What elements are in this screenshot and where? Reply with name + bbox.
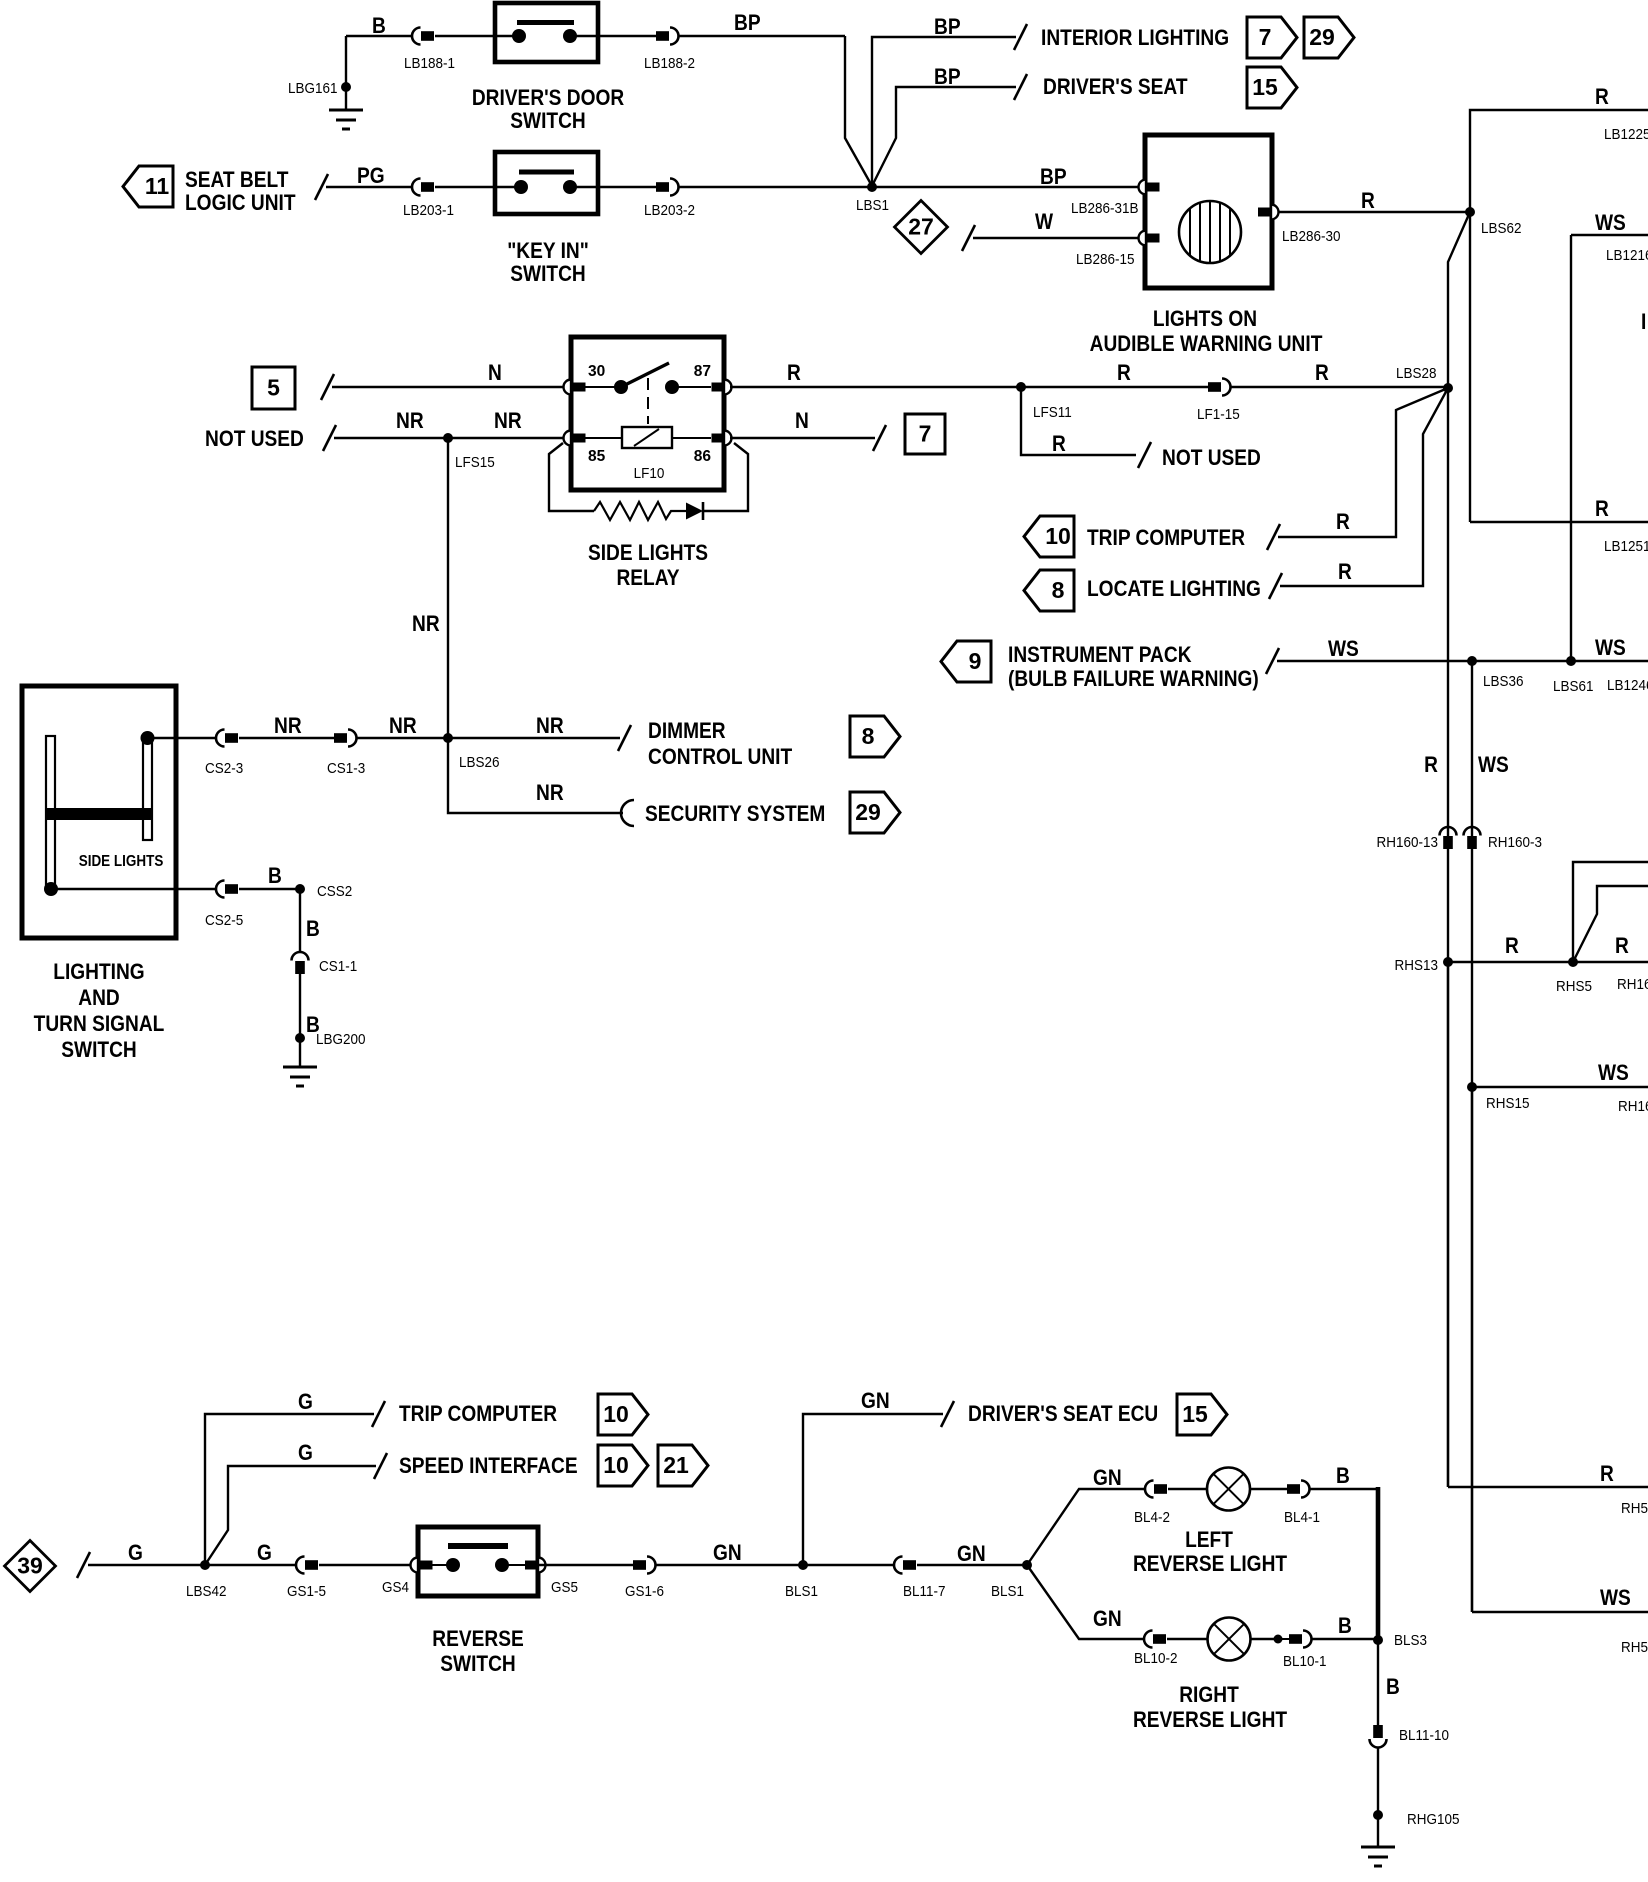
svg-text:RH16: RH16 xyxy=(1617,976,1648,993)
wire R from LB286-30 to LBS62 xyxy=(1279,211,1470,213)
node LBS62 xyxy=(1465,207,1475,217)
svg-text:29: 29 xyxy=(1309,24,1335,50)
svg-text:B: B xyxy=(306,917,320,942)
wire bulb to BL10-1 xyxy=(1250,1638,1278,1640)
svg-text:LFS11: LFS11 xyxy=(1033,404,1072,421)
switch left contact strip xyxy=(46,736,55,891)
wire BLS1 to BL11-7 xyxy=(803,1564,894,1566)
pointer 15 xyxy=(1247,67,1297,108)
svg-text:TURN SIGNAL: TURN SIGNAL xyxy=(34,1012,165,1037)
svg-text:LIGHTS ON: LIGHTS ON xyxy=(1153,307,1257,332)
svg-text:BL11-10: BL11-10 xyxy=(1399,1727,1449,1744)
wire CS1-3 to LBS26 xyxy=(356,737,448,739)
svg-text:8: 8 xyxy=(1052,577,1065,603)
svg-text:BP: BP xyxy=(734,11,761,36)
svg-text:(BULB FAILURE WARNING): (BULB FAILURE WARNING) xyxy=(1008,667,1259,692)
svg-text:LB188-1: LB188-1 xyxy=(404,55,455,72)
svg-text:GN: GN xyxy=(861,1389,890,1414)
svg-text:15: 15 xyxy=(1252,74,1278,100)
svg-text:7: 7 xyxy=(1259,24,1272,50)
svg-text:85: 85 xyxy=(588,448,606,465)
svg-text:LB286-31B: LB286-31B xyxy=(1071,200,1138,217)
relay pin 86 xyxy=(724,431,732,446)
wire from switch to LB203-2 xyxy=(598,186,656,188)
lights-on audible warning unit box xyxy=(1145,135,1272,288)
diamond 39 xyxy=(5,1541,56,1592)
svg-text:RELAY: RELAY xyxy=(616,566,679,591)
wire WS corner to right edge xyxy=(1472,1611,1648,1614)
wire WS trunk RHS15 down to corner xyxy=(1471,1087,1474,1612)
resistor xyxy=(594,502,686,520)
svg-text:LB1216: LB1216 xyxy=(1606,247,1648,264)
svg-text:WS: WS xyxy=(1598,1061,1629,1086)
svg-text:BP: BP xyxy=(934,65,961,90)
svg-text:REVERSE LIGHT: REVERSE LIGHT xyxy=(1133,1708,1288,1733)
key-in switch blade xyxy=(519,170,574,175)
svg-text:LBS62: LBS62 xyxy=(1481,220,1522,237)
pointer 10 speed xyxy=(598,1445,648,1486)
node LFS11 xyxy=(1016,382,1026,392)
svg-text:RHS5: RHS5 xyxy=(1556,978,1592,995)
wire N relay 86 to box 7 xyxy=(730,437,875,439)
connector CS2-5 xyxy=(216,881,225,898)
lighting and turn signal switch box xyxy=(22,686,176,938)
ground RHG105 xyxy=(1373,1810,1383,1820)
connector GS1-6 xyxy=(633,1560,646,1570)
svg-text:LF1-15: LF1-15 xyxy=(1197,406,1240,423)
switch contact dot lower xyxy=(44,882,58,896)
slash W wire xyxy=(962,225,975,251)
connector BL4-2 xyxy=(1145,1481,1154,1498)
wire B to BLS3 xyxy=(1311,1638,1378,1640)
svg-text:BL10-1: BL10-1 xyxy=(1283,1653,1327,1670)
connector CS1-1 xyxy=(292,952,309,961)
pointer 29 xyxy=(1304,17,1354,58)
svg-text:R: R xyxy=(1615,934,1629,959)
connector LB203-1 xyxy=(412,179,421,196)
connector BL10-1 xyxy=(1274,1635,1283,1644)
wire NR to dimmer control unit xyxy=(448,737,620,739)
pointer 29 security xyxy=(850,792,900,833)
svg-text:B: B xyxy=(1386,1675,1400,1700)
wire WS trunk LBS36 down to RHS15 xyxy=(1471,661,1473,1087)
wire WS trunk upper right xyxy=(1571,234,1648,236)
svg-text:SECURITY SYSTEM: SECURITY SYSTEM xyxy=(645,802,825,827)
connector BL4-1 xyxy=(1287,1484,1300,1494)
svg-text:SWITCH: SWITCH xyxy=(510,109,585,134)
svg-text:NR: NR xyxy=(274,714,302,739)
wire G to trip computer xyxy=(205,1414,374,1565)
connector LF1-15 xyxy=(1208,382,1221,392)
node LFS15 xyxy=(443,433,453,443)
wire bend down to LBS1 xyxy=(845,36,872,186)
svg-text:27: 27 xyxy=(908,214,934,240)
node LBS42 xyxy=(200,1560,210,1570)
square box 7 xyxy=(905,414,945,454)
node RHS5 xyxy=(1568,957,1578,967)
svg-text:WS: WS xyxy=(1595,211,1626,236)
svg-text:REVERSE LIGHT: REVERSE LIGHT xyxy=(1133,1552,1288,1577)
wire R relay 87 to LFS11 xyxy=(730,386,1021,388)
svg-text:NR: NR xyxy=(389,714,417,739)
svg-text:CS1-1: CS1-1 xyxy=(319,958,357,975)
relay blade xyxy=(621,363,669,387)
connector CS1-3 xyxy=(334,733,347,743)
svg-text:AND: AND xyxy=(78,986,120,1011)
svg-text:B: B xyxy=(1338,1614,1352,1639)
svg-text:GN: GN xyxy=(1093,1607,1122,1632)
pointer 11 SEAT BELT LOGIC UNIT xyxy=(123,166,173,207)
svg-text:NR: NR xyxy=(494,409,522,434)
connector CS2-3 xyxy=(216,730,225,747)
svg-text:WS: WS xyxy=(1328,637,1359,662)
relay pin 30 xyxy=(564,380,571,395)
wire PG to LB203-1 xyxy=(326,186,412,188)
wire BLS1 to left reverse light xyxy=(1027,1489,1145,1565)
svg-text:AUDIBLE WARNING UNIT: AUDIBLE WARNING UNIT xyxy=(1090,332,1323,357)
svg-text:BLS1: BLS1 xyxy=(991,1583,1024,1600)
wire B to BLS3 corner xyxy=(1309,1488,1379,1491)
svg-text:5: 5 xyxy=(267,375,280,401)
svg-text:87: 87 xyxy=(694,363,711,380)
svg-text:30: 30 xyxy=(588,363,605,380)
svg-text:LOGIC UNIT: LOGIC UNIT xyxy=(185,191,296,216)
svg-text:R: R xyxy=(1424,753,1438,778)
svg-text:WS: WS xyxy=(1478,753,1509,778)
wire B BLS3 down to BL11-10 xyxy=(1377,1640,1379,1725)
driver's door switch contacts xyxy=(495,35,519,37)
reverse switch blade xyxy=(448,1543,508,1549)
svg-text:RIGHT: RIGHT xyxy=(1179,1683,1239,1708)
wire W to LB286-15 xyxy=(973,237,1140,239)
svg-text:LOCATE LIGHTING: LOCATE LIGHTING xyxy=(1087,577,1261,602)
svg-text:R: R xyxy=(1600,1462,1614,1487)
svg-text:LBS42: LBS42 xyxy=(186,1583,227,1600)
svg-text:B: B xyxy=(372,14,386,39)
slash N wire xyxy=(321,374,334,400)
node RHS15 xyxy=(1467,1082,1477,1092)
svg-text:RH160-3: RH160-3 xyxy=(1488,834,1542,851)
svg-text:SWITCH: SWITCH xyxy=(440,1652,515,1677)
svg-text:R: R xyxy=(1117,361,1131,386)
connector BL11-7 xyxy=(894,1557,903,1574)
svg-text:B: B xyxy=(1336,1464,1350,1489)
svg-text:LF10: LF10 xyxy=(634,465,665,482)
wire GN to BLS1 xyxy=(655,1564,803,1566)
svg-text:SIDE LIGHTS: SIDE LIGHTS xyxy=(79,853,164,870)
diode xyxy=(686,503,703,520)
slash N end xyxy=(873,425,886,451)
wire CS2-5 to CSS2 xyxy=(239,888,300,890)
svg-text:GS5: GS5 xyxy=(551,1579,578,1596)
wire BP LBS1 to LB286-31B xyxy=(872,186,1140,188)
svg-text:RH58: RH58 xyxy=(1621,1500,1648,1517)
svg-text:N: N xyxy=(795,409,809,434)
pointer 10 trip computer xyxy=(1024,516,1074,557)
svg-text:LEFT: LEFT xyxy=(1185,1528,1233,1553)
wire R to trip computer xyxy=(1278,388,1448,537)
svg-text:R: R xyxy=(1336,510,1350,535)
wire NR to security system xyxy=(448,738,623,813)
slash NR wire xyxy=(323,425,336,451)
slash interior lighting xyxy=(1014,24,1027,50)
slash speed xyxy=(374,1453,387,1479)
svg-text:NR: NR xyxy=(536,781,564,806)
svg-text:LBG161: LBG161 xyxy=(288,80,338,97)
pointer 9 instrument pack xyxy=(941,641,991,682)
svg-text:DRIVER'S DOOR: DRIVER'S DOOR xyxy=(472,86,624,111)
svg-text:BP: BP xyxy=(934,15,961,40)
svg-text:LB188-2: LB188-2 xyxy=(644,55,695,72)
wire WS vertical from corner to LBS61 xyxy=(1570,235,1572,661)
slash trip xyxy=(372,1401,385,1427)
wire from switch to LB188-2 xyxy=(598,35,656,37)
svg-text:15: 15 xyxy=(1182,1401,1208,1427)
wire R corner to right edge xyxy=(1448,1486,1648,1489)
wire NR vertical LFS15 to LBS26 xyxy=(447,438,449,738)
connector RH160-3 xyxy=(1464,827,1481,836)
wire R trunk LBS28 down to RHS13 xyxy=(1447,388,1449,962)
switch contact dot upper xyxy=(141,731,155,745)
wire into key-in switch xyxy=(435,186,495,188)
wire WS RHS15 to right edge xyxy=(1472,1086,1648,1088)
node BLS1 b xyxy=(1022,1560,1032,1570)
svg-text:DIMMER: DIMMER xyxy=(648,719,726,744)
driver's door switch blade xyxy=(517,20,574,25)
svg-text:7: 7 xyxy=(919,421,932,447)
svg-text:BL11-7: BL11-7 xyxy=(903,1583,946,1600)
wire BL11-7 to BLS1 b xyxy=(917,1564,1027,1566)
svg-text:NR: NR xyxy=(396,409,424,434)
svg-text:86: 86 xyxy=(694,448,712,465)
wire G to LBS42 xyxy=(88,1564,205,1566)
wire R to locate lighting xyxy=(1280,388,1448,586)
pointer 10 trip bottom xyxy=(598,1394,648,1435)
svg-text:GS1-6: GS1-6 xyxy=(625,1583,664,1600)
svg-text:R: R xyxy=(1595,85,1609,110)
svg-text:11: 11 xyxy=(145,173,170,199)
connector LB188-1 xyxy=(412,28,421,45)
svg-text:TRIP COMPUTER: TRIP COMPUTER xyxy=(1087,526,1245,551)
svg-text:SWITCH: SWITCH xyxy=(61,1038,136,1063)
key-in switch box xyxy=(495,152,598,214)
relay pin 87 xyxy=(724,380,732,395)
wire BP branch to interior lighting xyxy=(872,37,1016,186)
svg-text:W: W xyxy=(1035,210,1054,235)
svg-text:LBS36: LBS36 xyxy=(1483,673,1524,690)
svg-text:RH16: RH16 xyxy=(1618,1098,1648,1115)
pointer 21 speed xyxy=(658,1445,708,1486)
wire R not-used branch xyxy=(1021,387,1136,455)
open connector arc security xyxy=(621,800,634,826)
svg-text:10: 10 xyxy=(603,1452,629,1478)
wire G to speed interface xyxy=(205,1466,376,1565)
relay box LF10 xyxy=(571,337,724,490)
switch crossbar xyxy=(46,808,153,820)
speaker symbol xyxy=(1179,201,1241,263)
svg-text:BL4-1: BL4-1 xyxy=(1284,1509,1320,1526)
svg-text:R: R xyxy=(1052,432,1066,457)
node LBS1 xyxy=(867,182,877,192)
svg-text:I: I xyxy=(1641,310,1646,335)
svg-text:BLS3: BLS3 xyxy=(1394,1632,1427,1649)
svg-text:LB1225: LB1225 xyxy=(1604,126,1648,143)
svg-text:LB286-30: LB286-30 xyxy=(1282,228,1341,245)
relay suppression loop right xyxy=(703,443,748,511)
svg-text:39: 39 xyxy=(17,1553,43,1579)
slash at seat belt wire xyxy=(315,174,328,200)
wire into driver's door switch xyxy=(435,35,495,37)
slash driver's seat xyxy=(1014,74,1027,100)
reverse switch contacts xyxy=(432,1564,453,1566)
node RHS13 xyxy=(1443,957,1453,967)
svg-text:"KEY IN": "KEY IN" xyxy=(507,239,589,264)
square box 5 xyxy=(252,367,295,409)
bulb LEFT REVERSE LIGHT xyxy=(1207,1468,1250,1511)
svg-text:GN: GN xyxy=(713,1541,742,1566)
svg-text:RH59: RH59 xyxy=(1621,1639,1648,1656)
svg-text:R: R xyxy=(1315,361,1329,386)
connector LB203-2 xyxy=(656,182,669,192)
wire CS2-3 to CS1-3 xyxy=(239,737,334,739)
svg-text:10: 10 xyxy=(603,1401,629,1427)
wire from switch to CS2-3 xyxy=(148,737,217,739)
svg-text:LBS28: LBS28 xyxy=(1396,365,1437,382)
node LBS26 xyxy=(443,733,453,743)
wire reverse switch to GS1-6 xyxy=(538,1564,633,1566)
svg-text:8: 8 xyxy=(862,723,875,749)
wire BL11-10 to RHG105 xyxy=(1377,1748,1379,1815)
svg-text:DRIVER'S SEAT ECU: DRIVER'S SEAT ECU xyxy=(968,1402,1158,1427)
node LBS61 xyxy=(1566,656,1576,666)
wire R branch up from RHS5 xyxy=(1573,862,1648,962)
pointer 7 xyxy=(1247,17,1297,58)
svg-text:TRIP COMPUTER: TRIP COMPUTER xyxy=(399,1402,557,1427)
ground LBG200 xyxy=(295,1033,305,1043)
relay pin 85 xyxy=(564,431,571,446)
svg-text:RHG105: RHG105 xyxy=(1407,1811,1460,1828)
svg-text:WS: WS xyxy=(1595,636,1626,661)
svg-text:LB286-15: LB286-15 xyxy=(1076,251,1135,268)
wire WS instrument pack xyxy=(1277,660,1648,662)
svg-text:SEAT BELT: SEAT BELT xyxy=(185,168,289,193)
svg-text:G: G xyxy=(298,1390,313,1415)
relay coil xyxy=(585,437,622,439)
svg-text:PG: PG xyxy=(357,164,385,189)
svg-text:R: R xyxy=(787,361,801,386)
diamond 27 xyxy=(895,201,948,254)
wire GS1-5 to reverse switch xyxy=(319,1564,418,1566)
svg-text:R: R xyxy=(1338,560,1352,585)
wire R trunk RHS13 down to corner xyxy=(1447,962,1450,1487)
pointer 8 dimmer xyxy=(850,716,900,757)
svg-text:BP: BP xyxy=(1040,165,1067,190)
pointer 8 locate lighting xyxy=(1024,570,1074,611)
svg-text:LBS26: LBS26 xyxy=(459,754,500,771)
svg-text:LIGHTING: LIGHTING xyxy=(53,960,144,985)
svg-text:NOT USED: NOT USED xyxy=(1162,446,1261,471)
svg-text:LB203-1: LB203-1 xyxy=(403,202,454,219)
pin LB286-31B xyxy=(1139,180,1147,195)
connector RH160-13 xyxy=(1440,827,1457,836)
wire BP branch to driver's seat xyxy=(872,87,1016,186)
slash not used xyxy=(1138,442,1151,468)
svg-text:BLS1: BLS1 xyxy=(785,1583,818,1600)
pointer 15 ecu xyxy=(1177,1394,1227,1435)
relay suppression loop left xyxy=(549,443,594,511)
svg-text:LB1246: LB1246 xyxy=(1607,677,1648,694)
node LBS28 xyxy=(1443,383,1453,393)
svg-text:CONTROL UNIT: CONTROL UNIT xyxy=(648,745,793,770)
svg-text:R: R xyxy=(1361,189,1375,214)
svg-text:REVERSE: REVERSE xyxy=(432,1627,523,1652)
svg-text:21: 21 xyxy=(663,1452,689,1478)
svg-text:NR: NR xyxy=(412,612,440,637)
wire R LF1-15 to LBS28 xyxy=(1230,386,1448,388)
svg-text:CSS2: CSS2 xyxy=(317,883,352,900)
connector BL11-10 xyxy=(1373,1725,1383,1738)
svg-text:N: N xyxy=(488,361,502,386)
svg-text:BL10-2: BL10-2 xyxy=(1134,1650,1178,1667)
svg-text:INSTRUMENT PACK: INSTRUMENT PACK xyxy=(1008,643,1192,668)
bulb RIGHT REVERSE LIGHT xyxy=(1208,1618,1251,1661)
ground LBG161 xyxy=(341,82,351,92)
svg-text:RHS15: RHS15 xyxy=(1486,1095,1530,1112)
svg-text:G: G xyxy=(298,1441,313,1466)
svg-text:LBS1: LBS1 xyxy=(856,197,889,214)
slash locate lighting xyxy=(1269,573,1282,599)
wire BL4-2 to bulb xyxy=(1168,1488,1207,1490)
slash instrument pack xyxy=(1266,648,1279,674)
svg-text:B: B xyxy=(268,864,282,889)
svg-text:LB203-2: LB203-2 xyxy=(644,202,695,219)
svg-text:LBS61: LBS61 xyxy=(1553,678,1594,695)
wire diagonal LBS62 to R vertical xyxy=(1448,212,1470,387)
wire BL10-2 to bulb xyxy=(1167,1638,1208,1640)
wire CSS2 down xyxy=(299,889,301,952)
wire NR to relay pin 85 xyxy=(334,437,565,439)
svg-text:WS: WS xyxy=(1600,1586,1631,1611)
wire R trunk LBS62 up and right xyxy=(1470,110,1648,212)
wire R branch to right edge xyxy=(1470,521,1648,523)
svg-text:GN: GN xyxy=(957,1542,986,1567)
node BLS1 a xyxy=(798,1560,808,1570)
svg-text:LFS15: LFS15 xyxy=(455,454,495,471)
svg-text:LB1251: LB1251 xyxy=(1604,538,1648,555)
switch right contact strip xyxy=(143,736,152,840)
svg-text:29: 29 xyxy=(855,799,881,825)
svg-text:DRIVER'S SEAT: DRIVER'S SEAT xyxy=(1043,75,1188,100)
wire GN to driver's seat ecu xyxy=(803,1414,943,1565)
key-in switch contacts xyxy=(495,186,521,188)
svg-text:GS1-5: GS1-5 xyxy=(287,1583,326,1600)
slash dimmer xyxy=(618,725,631,751)
wire LBS42 to GS1-5 xyxy=(205,1564,296,1566)
wire R branch diagonal from RHS5 xyxy=(1575,886,1648,958)
reverse switch box xyxy=(418,1527,538,1596)
slash G wire xyxy=(77,1552,90,1578)
svg-text:INTERIOR LIGHTING: INTERIOR LIGHTING xyxy=(1041,26,1229,51)
svg-text:10: 10 xyxy=(1045,523,1071,549)
svg-text:BL4-2: BL4-2 xyxy=(1134,1509,1170,1526)
wire bulb to BL4-1 xyxy=(1250,1488,1287,1490)
svg-text:SPEED INTERFACE: SPEED INTERFACE xyxy=(399,1454,578,1479)
svg-text:R: R xyxy=(1505,934,1519,959)
wire BP from LB203-2 to LBS1 xyxy=(678,186,872,188)
reverse switch pins xyxy=(411,1558,418,1573)
slash ecu xyxy=(941,1401,954,1427)
svg-text:CS2-3: CS2-3 xyxy=(205,760,243,777)
